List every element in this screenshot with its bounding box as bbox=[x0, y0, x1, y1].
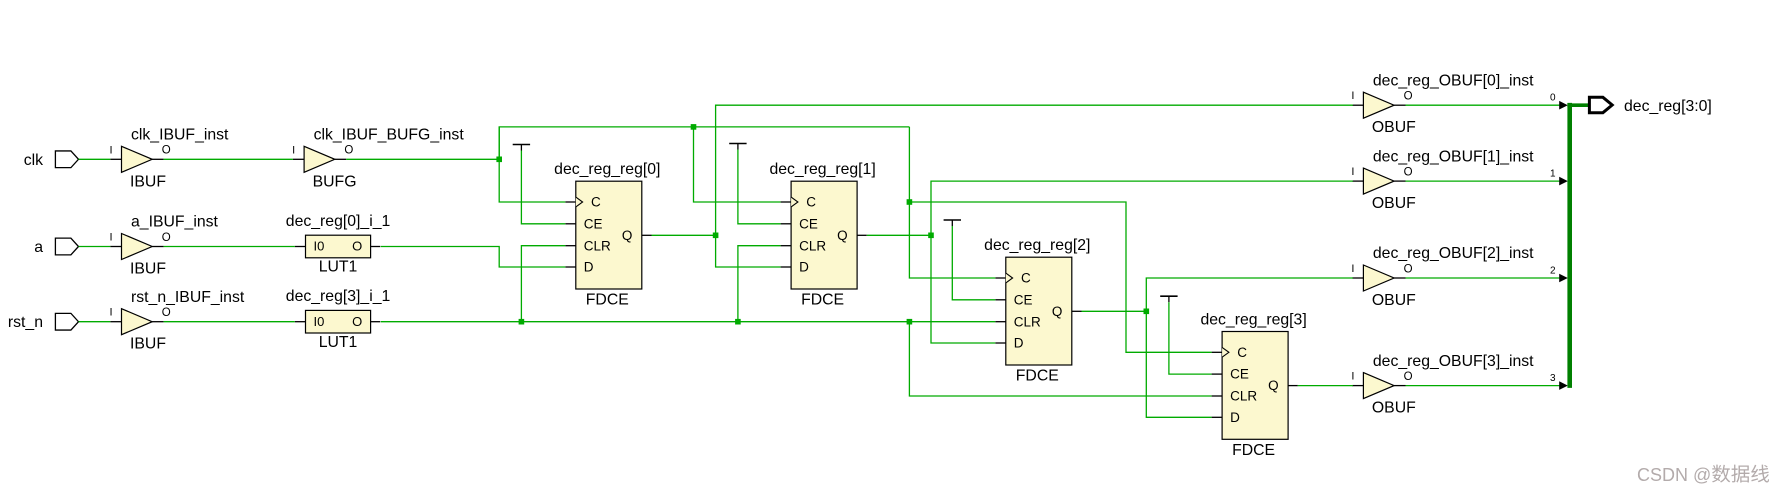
dec_reg_reg[0] pin stub CLR bbox=[565, 245, 576, 247]
svg-text:I0: I0 bbox=[314, 239, 325, 254]
svg-text:CSDN @: CSDN @ bbox=[1637, 465, 1711, 485]
const1 tie-off for dec_reg_reg[3]/CE bar bbox=[1160, 295, 1177, 297]
svg-text:CLR: CLR bbox=[1230, 389, 1257, 404]
dec_reg_reg[3] pin stub D bbox=[1212, 416, 1223, 418]
svg-text:I: I bbox=[109, 144, 112, 156]
wire OBUF2 output to bus bbox=[1406, 277, 1560, 279]
wire rst down to FDCE3.CLR bbox=[909, 322, 1211, 396]
wire Q0 out bbox=[652, 234, 716, 236]
wire OBUF3 output to bus bbox=[1406, 385, 1560, 387]
svg-text:D: D bbox=[584, 260, 594, 275]
wire Q2 down to FDCE3.D bbox=[1146, 311, 1211, 417]
svg-text:O: O bbox=[1404, 263, 1413, 275]
dec_reg_reg[0] pin stub C bbox=[565, 201, 576, 203]
wire const to FDCE3.CE bbox=[1169, 302, 1212, 374]
junction clk trunk to FDCE1 bbox=[691, 124, 697, 130]
LUT1 dec_reg[0]_i_1 output stub bbox=[371, 246, 381, 248]
dec_reg_reg[2] clock wedge bbox=[1006, 273, 1013, 283]
wire rst up to FDCE1.CLR bbox=[738, 246, 781, 322]
svg-text:clk_IBUF_BUFG_inst: clk_IBUF_BUFG_inst bbox=[314, 127, 465, 144]
LUT1 dec_reg[0]_i_1 input stub bbox=[295, 246, 306, 248]
const1 tie-off for dec_reg_reg[1]/CE bar bbox=[729, 143, 746, 145]
BUFG clk_IBUF_BUFG_inst body bbox=[304, 146, 335, 172]
dec_reg_reg[1] pin stub C bbox=[781, 201, 792, 203]
junction Q1 branch bbox=[928, 233, 934, 239]
svg-text:I: I bbox=[1351, 371, 1354, 383]
dec_reg_reg[1] pin stub CLR bbox=[781, 245, 792, 247]
wire rst port to IBUF bbox=[79, 321, 111, 323]
svg-text:C: C bbox=[591, 195, 601, 210]
svg-text:I: I bbox=[1351, 166, 1354, 178]
flip-flop dec_reg_reg[0] body bbox=[576, 181, 642, 289]
wire Q2 up to OBUF2 bbox=[1146, 278, 1353, 311]
svg-text:BUFG: BUFG bbox=[313, 173, 357, 190]
wire Q1 up to OBUF1 bbox=[931, 181, 1353, 235]
svg-text:dec_reg[3]_i_1: dec_reg[3]_i_1 bbox=[286, 288, 391, 305]
bus entry arrowhead bit 0 bbox=[1559, 101, 1568, 110]
dec_reg_reg[0] pin stub CE bbox=[565, 223, 576, 225]
output port dec_reg[3:0] bbox=[1589, 97, 1612, 112]
wire clk branch to FDCE1.C bbox=[694, 127, 781, 202]
dec_reg_reg[3] pin stub Q bbox=[1288, 385, 1298, 387]
OBUF dec_reg_OBUF[0]_inst body bbox=[1363, 92, 1394, 118]
junction Q0 branch bbox=[713, 233, 719, 239]
svg-text:CE: CE bbox=[1014, 292, 1033, 307]
svg-text:CE: CE bbox=[799, 216, 818, 231]
const1 tie-off for dec_reg_reg[3]/CE stub bbox=[1168, 296, 1170, 302]
svg-text:FDCE: FDCE bbox=[801, 292, 844, 309]
junction rst to FDCE0 bbox=[519, 319, 525, 325]
svg-text:I0: I0 bbox=[314, 314, 325, 329]
bus entry arrowhead bit 3 bbox=[1559, 381, 1568, 390]
svg-text:C: C bbox=[1237, 345, 1247, 360]
svg-text:IBUF: IBUF bbox=[130, 261, 166, 278]
wire Q1 out bbox=[867, 234, 931, 236]
svg-text:CE: CE bbox=[1230, 367, 1249, 382]
dec_reg_reg[1] pin stub CE bbox=[781, 223, 792, 225]
IBUF a_IBUF_inst output stub bbox=[152, 246, 163, 248]
dec_reg_reg[3] pin stub CE bbox=[1212, 373, 1223, 375]
svg-text:1: 1 bbox=[1550, 169, 1556, 180]
OBUF dec_reg_OBUF[0]_inst output stub bbox=[1394, 104, 1405, 106]
IBUF rst_n_IBUF_inst input stub bbox=[110, 321, 121, 323]
flip-flop dec_reg_reg[3] body bbox=[1222, 332, 1288, 440]
svg-text:D: D bbox=[799, 260, 809, 275]
svg-text:clk_IBUF_inst: clk_IBUF_inst bbox=[131, 127, 229, 144]
wire const to FDCE2.CE bbox=[952, 226, 995, 300]
svg-text:D: D bbox=[1230, 410, 1240, 425]
dec_reg_reg[2] pin stub C bbox=[995, 277, 1006, 279]
svg-text:rst_n_IBUF_inst: rst_n_IBUF_inst bbox=[131, 289, 245, 306]
bus entry arrowhead bit 2 bbox=[1559, 274, 1568, 283]
svg-text:a_IBUF_inst: a_IBUF_inst bbox=[131, 214, 219, 231]
bus entry arrowhead bit 1 bbox=[1559, 177, 1568, 186]
svg-text:FDCE: FDCE bbox=[586, 292, 629, 309]
svg-text:CLR: CLR bbox=[799, 238, 826, 253]
svg-text:dec_reg_reg[1]: dec_reg_reg[1] bbox=[769, 161, 875, 178]
svg-text:CLR: CLR bbox=[1014, 314, 1041, 329]
svg-text:OBUF: OBUF bbox=[1372, 400, 1416, 417]
const1 tie-off for dec_reg_reg[2]/CE stub bbox=[951, 220, 953, 226]
wire OBUF0 output to bus bbox=[1406, 104, 1560, 106]
svg-text:OBUF: OBUF bbox=[1372, 119, 1416, 136]
dec_reg_reg[1] pin stub D bbox=[781, 266, 792, 268]
svg-text:dec_reg_OBUF[2]_inst: dec_reg_OBUF[2]_inst bbox=[1373, 245, 1534, 262]
OBUF dec_reg_OBUF[3]_inst output stub bbox=[1394, 385, 1405, 387]
svg-text:O: O bbox=[344, 145, 353, 157]
watermark CJK glyphs bbox=[1712, 465, 1769, 483]
dec_reg_reg[3] pin stub C bbox=[1212, 351, 1223, 353]
IBUF clk_IBUF_inst output stub bbox=[152, 158, 163, 160]
svg-text:dec_reg_reg[0]: dec_reg_reg[0] bbox=[554, 161, 660, 178]
IBUF clk_IBUF_inst body bbox=[122, 146, 153, 172]
svg-text:LUT1: LUT1 bbox=[319, 259, 358, 276]
dec_reg_reg[0] pin stub D bbox=[565, 266, 576, 268]
svg-text:dec_reg_OBUF[1]_inst: dec_reg_OBUF[1]_inst bbox=[1373, 148, 1534, 165]
junction clk at BUFG output bbox=[496, 157, 502, 163]
svg-text:Q: Q bbox=[1052, 304, 1063, 319]
wire Q0 down to FDCE1.D bbox=[716, 235, 781, 267]
wire clk port to IBUF bbox=[79, 158, 111, 160]
wire clk BUFG.O to junction bbox=[346, 158, 499, 160]
svg-text:O: O bbox=[162, 307, 171, 319]
wire Q2 out bbox=[1082, 310, 1147, 312]
svg-text:O: O bbox=[162, 145, 171, 157]
svg-text:Q: Q bbox=[837, 228, 848, 243]
svg-text:O: O bbox=[1404, 91, 1413, 103]
wire clk IBUF.O to BUFG.I bbox=[164, 158, 293, 160]
dec_reg_reg[2] pin stub CLR bbox=[995, 321, 1006, 323]
dec_reg_reg[0] clock wedge bbox=[576, 197, 583, 207]
junction Q2 branch bbox=[1144, 309, 1150, 315]
LUT1 dec_reg[3]_i_1 output stub bbox=[371, 321, 381, 323]
OBUF dec_reg_OBUF[2]_inst output stub bbox=[1394, 277, 1405, 279]
svg-text:OBUF: OBUF bbox=[1372, 292, 1416, 309]
svg-text:Q: Q bbox=[1268, 378, 1279, 393]
wire clk branch right to FDCE3.C bbox=[909, 202, 1211, 352]
output bus horizontal to port bbox=[1567, 103, 1589, 107]
svg-text:2: 2 bbox=[1550, 265, 1556, 276]
svg-text:3: 3 bbox=[1550, 373, 1556, 384]
svg-text:IBUF: IBUF bbox=[130, 173, 166, 190]
wire clk to FDCE0.C bbox=[499, 127, 565, 202]
BUFG clk_IBUF_BUFG_inst input stub bbox=[293, 158, 304, 160]
junction rst to FDCE3 bbox=[907, 319, 913, 325]
IBUF clk_IBUF_inst input stub bbox=[110, 158, 121, 160]
BUFG clk_IBUF_BUFG_inst output stub bbox=[335, 158, 346, 160]
svg-text:C: C bbox=[1021, 271, 1031, 286]
svg-text:IBUF: IBUF bbox=[130, 336, 166, 353]
const1 tie-off for dec_reg_reg[1]/CE stub bbox=[737, 144, 739, 150]
wire rst IBUF.O to LUT1.I0 bbox=[164, 321, 295, 323]
wire Q3 out to OBUF3 bbox=[1298, 385, 1353, 387]
output bus vertical bbox=[1567, 103, 1572, 388]
wire const to FDCE1.CE bbox=[738, 150, 781, 224]
dec_reg_reg[2] pin stub CE bbox=[995, 299, 1006, 301]
dec_reg_reg[2] pin stub Q bbox=[1072, 310, 1082, 312]
svg-text:O: O bbox=[1404, 371, 1413, 383]
svg-text:CE: CE bbox=[584, 216, 603, 231]
svg-text:O: O bbox=[352, 239, 362, 254]
wire Q0 up to OBUF0 bbox=[716, 105, 1353, 235]
svg-text:I: I bbox=[1351, 263, 1354, 275]
wire clk net trunk up/right bbox=[499, 127, 909, 159]
wire OBUF1 output to bus bbox=[1406, 180, 1560, 182]
OBUF dec_reg_OBUF[3]_inst body bbox=[1363, 373, 1394, 399]
svg-text:dec_reg_OBUF[3]_inst: dec_reg_OBUF[3]_inst bbox=[1373, 353, 1534, 370]
junction rst to FDCE1 bbox=[735, 319, 741, 325]
IBUF a_IBUF_inst body bbox=[122, 234, 153, 260]
wire a IBUF.O to LUT1.I0 bbox=[164, 246, 295, 248]
svg-text:Q: Q bbox=[622, 228, 633, 243]
junction clk trunk to FDCE3 bbox=[907, 199, 913, 205]
svg-text:I: I bbox=[109, 307, 112, 319]
OBUF dec_reg_OBUF[1]_inst output stub bbox=[1394, 180, 1405, 182]
svg-text:O: O bbox=[1404, 166, 1413, 178]
dec_reg_reg[1] pin stub Q bbox=[857, 234, 867, 236]
svg-text:a: a bbox=[34, 239, 43, 256]
svg-text:dec_reg_OBUF[0]_inst: dec_reg_OBUF[0]_inst bbox=[1373, 72, 1534, 89]
svg-text:dec_reg[3:0]: dec_reg[3:0] bbox=[1624, 98, 1712, 115]
IBUF a_IBUF_inst input stub bbox=[110, 246, 121, 248]
const1 tie-off for dec_reg_reg[0]/CE bar bbox=[513, 144, 530, 146]
svg-text:D: D bbox=[1014, 336, 1024, 351]
wire Q1 down to FDCE2.D bbox=[931, 235, 995, 343]
svg-text:0: 0 bbox=[1550, 93, 1556, 104]
svg-text:LUT1: LUT1 bbox=[319, 334, 358, 351]
flip-flop dec_reg_reg[2] body bbox=[1006, 257, 1072, 365]
svg-text:O: O bbox=[352, 314, 362, 329]
dec_reg_reg[2] pin stub D bbox=[995, 342, 1006, 344]
wire const to FDCE0.CE bbox=[521, 151, 565, 224]
const1 tie-off for dec_reg_reg[0]/CE stub bbox=[520, 145, 522, 151]
dec_reg_reg[3] clock wedge bbox=[1222, 347, 1229, 357]
dec_reg_reg[0] pin stub Q bbox=[642, 234, 652, 236]
LUT1 dec_reg[0]_i_1 body bbox=[306, 235, 371, 258]
svg-text:FDCE: FDCE bbox=[1232, 442, 1275, 459]
svg-text:CLR: CLR bbox=[584, 238, 611, 253]
OBUF dec_reg_OBUF[0]_inst input stub bbox=[1352, 104, 1363, 106]
input port a bbox=[34, 238, 78, 256]
dec_reg_reg[3] pin stub CLR bbox=[1212, 395, 1223, 397]
flip-flop dec_reg_reg[1] body bbox=[791, 181, 857, 289]
svg-text:O: O bbox=[162, 232, 171, 244]
input port rst_n bbox=[8, 313, 79, 331]
svg-text:I: I bbox=[109, 232, 112, 244]
IBUF rst_n_IBUF_inst output stub bbox=[152, 321, 163, 323]
svg-text:dec_reg_reg[3]: dec_reg_reg[3] bbox=[1200, 311, 1306, 328]
input port clk bbox=[24, 151, 79, 169]
svg-text:I: I bbox=[292, 144, 295, 156]
wire rst LUT1.O along to FDCE2.CLR bbox=[381, 321, 996, 323]
OBUF dec_reg_OBUF[1]_inst body bbox=[1363, 168, 1394, 194]
svg-text:dec_reg_reg[2]: dec_reg_reg[2] bbox=[984, 237, 1090, 254]
svg-text:C: C bbox=[806, 195, 816, 210]
dec_reg_reg[1] clock wedge bbox=[791, 197, 798, 207]
wire clk branch down to FDCE2.C bbox=[909, 127, 995, 278]
svg-text:FDCE: FDCE bbox=[1016, 368, 1059, 385]
OBUF dec_reg_OBUF[1]_inst input stub bbox=[1352, 180, 1363, 182]
OBUF dec_reg_OBUF[2]_inst body bbox=[1363, 265, 1394, 291]
svg-text:rst_n: rst_n bbox=[8, 314, 43, 331]
wire a LUT1.O to FDCE0.D bbox=[381, 247, 566, 268]
svg-text:dec_reg[0]_i_1: dec_reg[0]_i_1 bbox=[286, 213, 391, 230]
OBUF dec_reg_OBUF[3]_inst input stub bbox=[1352, 385, 1363, 387]
svg-text:clk: clk bbox=[24, 152, 43, 169]
LUT1 dec_reg[3]_i_1 input stub bbox=[295, 321, 306, 323]
const1 tie-off for dec_reg_reg[2]/CE bar bbox=[944, 219, 961, 221]
svg-text:OBUF: OBUF bbox=[1372, 195, 1416, 212]
OBUF dec_reg_OBUF[2]_inst input stub bbox=[1352, 277, 1363, 279]
svg-text:I: I bbox=[1351, 90, 1354, 102]
IBUF rst_n_IBUF_inst body bbox=[122, 309, 153, 335]
LUT1 dec_reg[3]_i_1 body bbox=[306, 310, 371, 333]
wire rst up to FDCE0.CLR bbox=[521, 246, 565, 322]
wire a port to IBUF bbox=[79, 246, 111, 248]
